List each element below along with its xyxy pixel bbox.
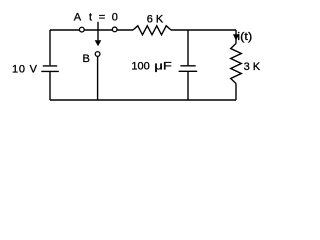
voltage source V1 10V plates [41,66,59,72]
wire capacitor branch lower [187,72,189,100]
wire capacitor branch upper [187,30,189,65]
current arrow i(t) arrowhead [233,34,239,40]
svg-text:t = 0: t = 0 [89,11,118,23]
resistor R2 3K zigzag [231,44,242,84]
wire right vertical lower [235,84,237,101]
svg-text:A: A [74,12,82,24]
svg-text:B: B [83,53,90,65]
svg-text:6 K: 6 K [147,14,164,26]
label 6 K [147,14,164,26]
resistor R1 6K zigzag [133,26,171,35]
svg-text:μF: μF [154,60,172,72]
label B [83,53,90,65]
label 100 uF [131,60,172,72]
svg-text:100: 100 [131,60,149,72]
wire switch B branch [97,57,99,101]
switch contact B circle [95,52,100,57]
label i(t) [237,31,252,43]
wire right vertical upper [235,30,237,44]
switch contact A circle [79,27,84,32]
wire top-left segment [50,29,133,31]
switch throw arrow shaft t=0 [97,22,99,42]
label 10 V [12,64,38,76]
wire left vertical lower [49,72,51,100]
switch pivot contact circle [112,27,117,32]
wire left vertical upper [49,30,51,65]
label t = 0 [89,11,118,23]
svg-text:3 K: 3 K [244,61,261,73]
wire bottom [50,99,236,101]
switch throw arrowhead [95,40,102,46]
label A [74,12,82,24]
svg-text:i(t): i(t) [237,31,252,43]
capacitor C1 100uF plates [179,66,198,72]
wire top-right segment [171,29,236,31]
svg-text:10 V: 10 V [12,64,38,76]
label 3 K [244,61,261,73]
